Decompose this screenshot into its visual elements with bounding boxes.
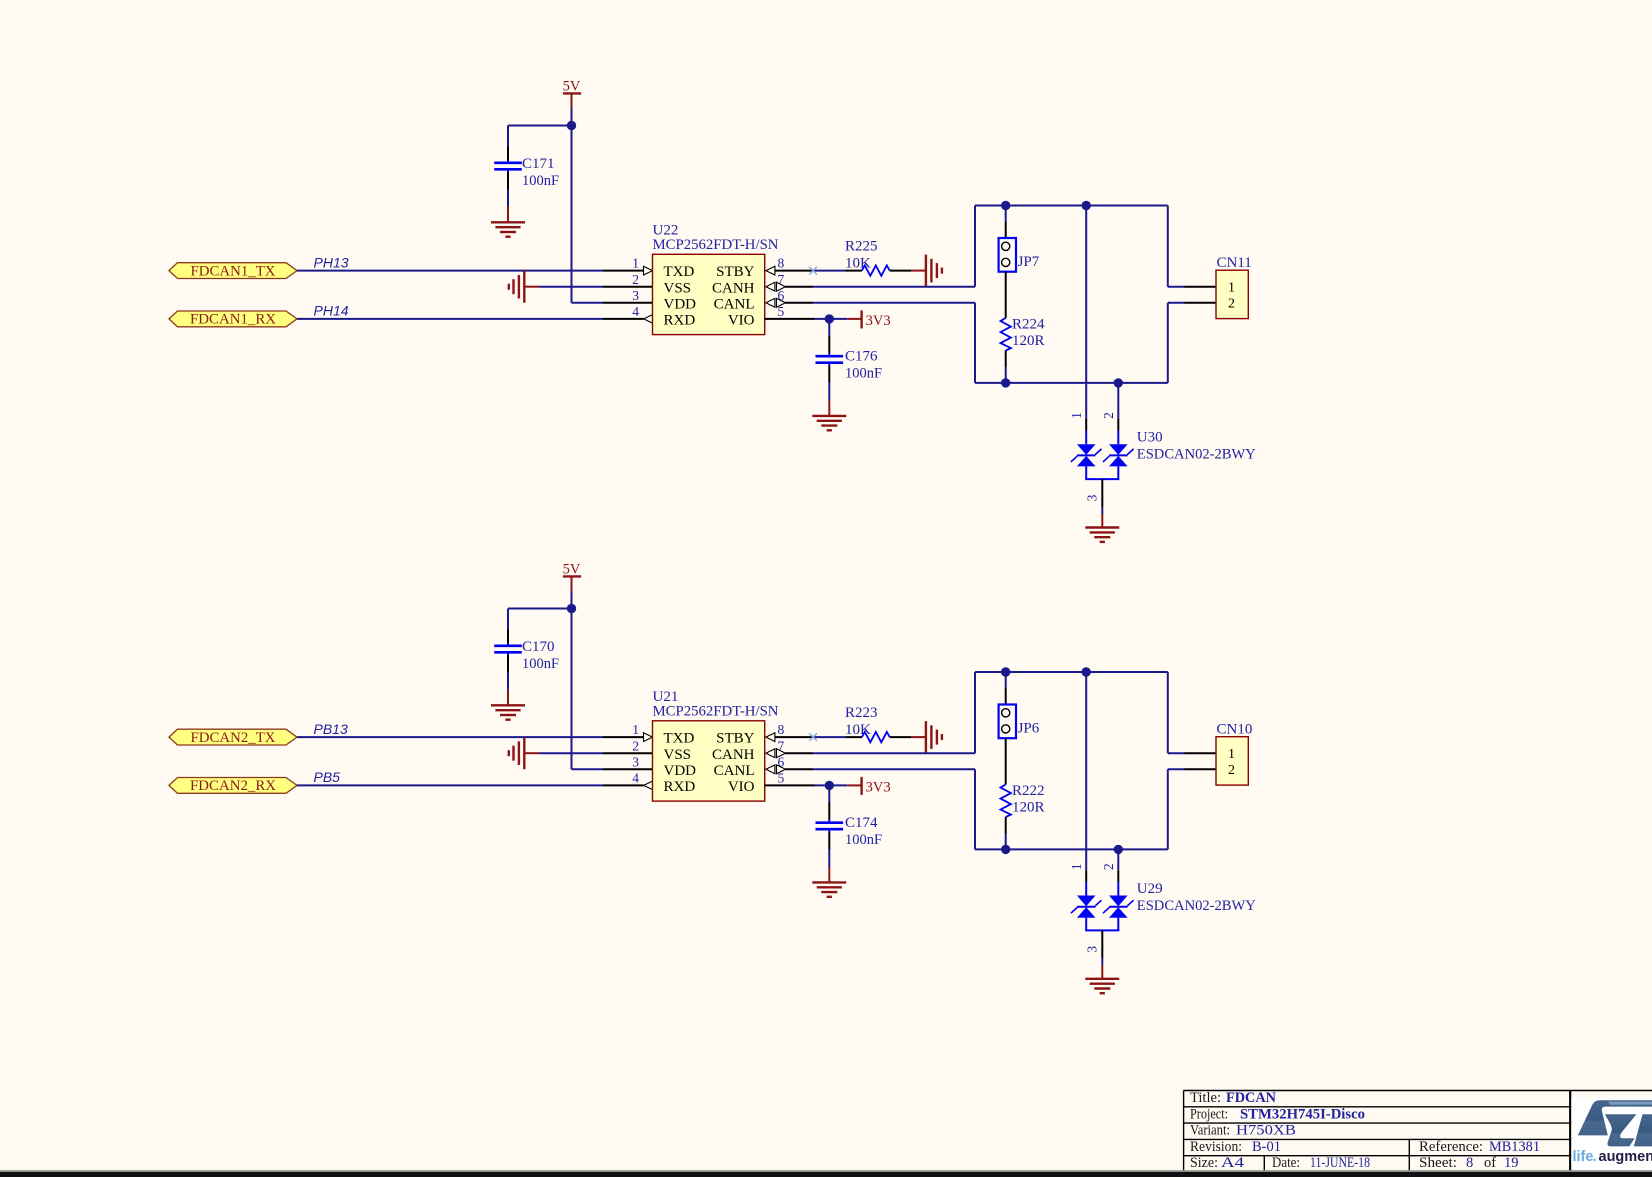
wire FDCAN1_TX to TXD pin 1 (circuit 1)	[297, 270, 644, 272]
wire CANH bus top rail (circuit 2)	[975, 672, 1168, 753]
junction 5V node (circuit 1)	[567, 121, 576, 130]
svg-text:C174: C174	[845, 815, 878, 831]
wire FDCAN2_TX to TXD pin 1 (circuit 2)	[297, 736, 644, 738]
wire bottom rail to CN11 pin 2 (circuit 1)	[1168, 303, 1216, 383]
junction top rail at JP7 (circuit 1)	[1001, 201, 1010, 210]
title block Date cell	[1272, 1155, 1370, 1171]
power symbol 3V3 bar (circuit 1)	[860, 310, 862, 328]
wire 5V rail down to VDD pin (circuit 1)	[572, 126, 604, 303]
title block table	[1184, 1091, 1652, 1172]
svg-text:4: 4	[632, 304, 639, 319]
port FDCAN1_RX	[169, 311, 297, 328]
svg-text:.: .	[1593, 1149, 1597, 1165]
svg-text:Variant:: Variant:	[1190, 1123, 1230, 1139]
svg-text:Size:: Size:	[1190, 1155, 1218, 1171]
wire R222 to bottom rail (circuit 2)	[1005, 817, 1007, 849]
svg-text:R223: R223	[845, 705, 878, 721]
wire top rail to U29 pin 1 (circuit 2)	[1085, 672, 1087, 896]
junction 5V node (circuit 2)	[567, 604, 576, 613]
svg-text:B-01: B-01	[1252, 1139, 1281, 1155]
port FDCAN2_TX	[169, 729, 297, 746]
svg-text:C176: C176	[845, 349, 878, 365]
resistor R222 120R	[1001, 784, 1011, 817]
wire C174 bottom lead (circuit 2)	[828, 829, 830, 882]
svg-text:5V: 5V	[563, 562, 581, 578]
capacitor C176	[816, 356, 844, 363]
svg-text:100nF: 100nF	[522, 656, 559, 672]
port FDCAN2_RX	[169, 778, 297, 795]
power symbol 3V3 bar (circuit 2)	[860, 777, 862, 795]
wire C174 top lead (circuit 2)	[828, 785, 830, 822]
svg-text:Sheet:: Sheet:	[1419, 1155, 1457, 1171]
wire VSS pin 2 (circuit 2)	[524, 752, 652, 754]
wire C170 bottom lead (circuit 2)	[507, 652, 509, 705]
transceiver U21 MCP2562FDT-H/SN	[653, 721, 765, 801]
wire 5V to C170 (circuit 2)	[508, 608, 572, 610]
svg-text:1: 1	[1069, 863, 1084, 870]
svg-text:CN11: CN11	[1217, 255, 1252, 271]
svg-text:R224: R224	[1012, 317, 1045, 333]
svg-text:CN10: CN10	[1217, 721, 1253, 737]
svg-text:3: 3	[1085, 494, 1100, 501]
jumper JP6	[999, 705, 1016, 739]
svg-text:3: 3	[632, 288, 639, 303]
svg-text:ESDCAN02-2BWY: ESDCAN02-2BWY	[1137, 447, 1256, 463]
power symbol 5V bar (circuit 2)	[563, 576, 581, 591]
svg-text:of: of	[1484, 1155, 1496, 1171]
port FDCAN1_TX	[169, 263, 297, 280]
svg-text:1: 1	[632, 256, 639, 271]
svg-text:R222: R222	[1012, 783, 1045, 799]
svg-text:CANH: CANH	[712, 747, 755, 763]
ground at U29 pin 3	[1085, 979, 1119, 993]
svg-text:U30: U30	[1137, 430, 1163, 446]
title block Title row	[1190, 1090, 1277, 1106]
svg-text:life: life	[1573, 1149, 1594, 1165]
svg-text:FDCAN2_TX: FDCAN2_TX	[191, 730, 276, 746]
svg-text:CANL: CANL	[714, 296, 755, 312]
svg-text:Reference:: Reference:	[1419, 1139, 1483, 1155]
svg-text:1: 1	[1228, 281, 1235, 296]
svg-text:TXD: TXD	[664, 264, 695, 280]
pin 6 CANL arrows (circuit 2)	[766, 765, 786, 774]
junction bottom rail at R222 (circuit 2)	[1001, 845, 1010, 854]
resistor R224 120R	[1001, 318, 1011, 351]
svg-text:CANH: CANH	[712, 280, 755, 296]
svg-text:VIO: VIO	[728, 313, 755, 329]
TVS diode B of U30	[1103, 444, 1134, 466]
wire top rail to U30 pin 1 (circuit 1)	[1085, 206, 1087, 445]
ground at VSS (circuit 2)	[509, 737, 525, 769]
svg-text:RXD: RXD	[664, 779, 696, 795]
wire 5V vertical to junction (circuit 2)	[571, 592, 573, 609]
wire VDD pin 3 black segment (circuit 2)	[603, 768, 653, 770]
resistor R223 10K	[862, 732, 890, 742]
svg-text:2: 2	[632, 738, 639, 753]
pin 4 output arrow (circuit 1)	[644, 315, 653, 324]
svg-text:3: 3	[632, 754, 639, 769]
svg-text:C171: C171	[522, 156, 555, 172]
wire FDCAN1_RX to RXD pin 4 (circuit 1)	[297, 318, 644, 320]
jumper JP7	[999, 238, 1016, 272]
wire C171 bottom lead (circuit 1)	[507, 169, 509, 222]
wire CANL (circuit 2)	[786, 768, 976, 770]
wire VDD pin 3 black segment (circuit 1)	[603, 302, 653, 304]
wire top rail to CN11 pin 1 (circuit 1)	[1168, 206, 1216, 287]
svg-text:100nF: 100nF	[522, 173, 559, 189]
wire U30 common cathode to pin 3 (circuit 1)	[1085, 466, 1119, 527]
svg-text:5V: 5V	[563, 79, 581, 95]
svg-text:FDCAN2_RX: FDCAN2_RX	[190, 778, 276, 794]
wire CANH (circuit 2)	[786, 752, 976, 754]
svg-text:VSS: VSS	[664, 280, 692, 296]
ground below C174	[812, 882, 846, 896]
junction bottom rail at U30 pin 2 (circuit 1)	[1114, 378, 1123, 387]
svg-text:1: 1	[1069, 412, 1084, 419]
wire C170 top lead (circuit 2)	[507, 609, 509, 646]
wire bottom rail to U30 pin 2 (circuit 1)	[1117, 383, 1119, 444]
pin 1 input arrow (circuit 1)	[644, 266, 653, 275]
svg-text:C170: C170	[522, 639, 555, 655]
svg-text:2: 2	[1228, 763, 1235, 778]
title block Revision cell	[1190, 1139, 1281, 1155]
svg-text:3V3: 3V3	[866, 780, 891, 796]
svg-text:STBY: STBY	[716, 731, 755, 747]
pin 6 CANL arrows (circuit 1)	[766, 298, 786, 307]
no-ERC cross on STBY net (circuit 2)	[809, 733, 817, 741]
svg-text:FDCAN1_TX: FDCAN1_TX	[191, 263, 276, 279]
title block Variant row	[1190, 1123, 1296, 1139]
svg-text:PB13: PB13	[314, 721, 348, 737]
transceiver U22 MCP2562FDT-H/SN	[653, 254, 765, 334]
title block Size cell	[1190, 1155, 1245, 1171]
junction VIO node (circuit 1)	[825, 314, 834, 323]
svg-text:1: 1	[632, 722, 639, 737]
wire STBY to R225 (circuit 1)	[775, 270, 862, 272]
svg-text:8: 8	[778, 256, 785, 271]
svg-text:H750XB: H750XB	[1236, 1123, 1296, 1139]
wire U29 common cathode to pin 3 (circuit 2)	[1085, 918, 1119, 979]
title block Sheet cell	[1419, 1155, 1519, 1171]
svg-text:8: 8	[1466, 1155, 1473, 1171]
svg-text:2: 2	[1101, 863, 1116, 870]
ST logo pebble	[1578, 1100, 1652, 1146]
ground below C170	[491, 705, 525, 719]
svg-text:JP6: JP6	[1018, 721, 1040, 737]
svg-text:PH14: PH14	[314, 303, 349, 319]
wire CANL bus to bottom rail (circuit 2)	[975, 769, 1168, 849]
svg-text:A4: A4	[1221, 1155, 1245, 1171]
svg-text:ESDCAN02-2BWY: ESDCAN02-2BWY	[1137, 898, 1256, 914]
svg-text:CANL: CANL	[714, 763, 755, 779]
junction top rail at JP6 (circuit 2)	[1001, 667, 1010, 676]
svg-text:Project:: Project:	[1190, 1106, 1228, 1122]
wire bottom rail to U29 pin 2 (circuit 2)	[1117, 849, 1119, 895]
svg-text:JP7: JP7	[1018, 254, 1040, 270]
svg-text:120R: 120R	[1012, 800, 1045, 816]
svg-text:MCP2562FDT-H/SN: MCP2562FDT-H/SN	[653, 703, 779, 719]
ST logo life.augmented text	[1573, 1149, 1652, 1165]
wire R225 to ground (circuit 1)	[890, 270, 926, 272]
pin 8 STBY arrow (circuit 2)	[766, 733, 775, 742]
wire CANH bus top rail (circuit 1)	[975, 206, 1168, 287]
bottom window taskbar band	[0, 1170, 1652, 1177]
capacitor C174	[816, 823, 844, 830]
svg-text:MB1381: MB1381	[1489, 1139, 1540, 1155]
svg-text:augmented: augmented	[1599, 1149, 1652, 1165]
svg-text:Revision:: Revision:	[1190, 1139, 1242, 1155]
svg-text:PB5: PB5	[314, 769, 341, 785]
svg-text:Date:: Date:	[1272, 1155, 1300, 1171]
svg-text:U29: U29	[1137, 881, 1163, 897]
svg-text:FDCAN: FDCAN	[1226, 1090, 1277, 1106]
TVS diode B of U29	[1103, 896, 1134, 918]
pin numbers 8-5 of U21	[778, 722, 785, 785]
wire top rail to JP7 (circuit 1)	[1005, 206, 1007, 239]
connector CN10	[1216, 737, 1248, 785]
ground at U30 pin 3	[1085, 528, 1119, 542]
svg-text:8: 8	[778, 722, 785, 737]
connector CN11	[1216, 270, 1248, 318]
ST logo cell background	[1571, 1098, 1652, 1170]
wire bottom rail to CN10 pin 2 (circuit 2)	[1168, 769, 1216, 849]
ground below C176	[812, 416, 846, 430]
wire CANL (circuit 1)	[786, 302, 976, 304]
junction top rail at U30 pin 1 (circuit 1)	[1082, 201, 1091, 210]
svg-text:VDD: VDD	[664, 763, 697, 779]
capacitor C171	[494, 163, 522, 170]
wire 5V to C171 (circuit 1)	[508, 125, 572, 127]
wire R223 to ground (circuit 2)	[890, 736, 926, 738]
svg-text:3: 3	[1085, 946, 1100, 953]
svg-text:2: 2	[1101, 412, 1116, 419]
wire 5V vertical to junction (circuit 1)	[571, 109, 573, 126]
svg-text:STBY: STBY	[716, 264, 755, 280]
svg-text:VDD: VDD	[664, 296, 697, 312]
svg-text:2: 2	[632, 272, 639, 287]
svg-text:1: 1	[1228, 747, 1235, 762]
pin 8 STBY arrow (circuit 1)	[766, 266, 775, 275]
svg-text:R225: R225	[845, 239, 878, 255]
svg-text:19: 19	[1504, 1155, 1519, 1171]
svg-text:MCP2562FDT-H/SN: MCP2562FDT-H/SN	[653, 237, 779, 253]
no-ERC cross on STBY net (circuit 1)	[809, 267, 817, 275]
svg-text:4: 4	[632, 771, 639, 786]
pin numbers 1-4 of U21	[632, 722, 639, 785]
ground below C171	[491, 222, 525, 236]
pin 7 CANH arrows (circuit 2)	[766, 749, 786, 758]
svg-text:100nF: 100nF	[845, 832, 882, 848]
wire C176 bottom lead (circuit 1)	[828, 363, 830, 416]
wire C176 top lead (circuit 1)	[828, 319, 830, 356]
pin 7 CANH arrows (circuit 1)	[766, 282, 786, 291]
junction VIO node (circuit 2)	[825, 781, 834, 790]
pin numbers 8-5 of U22	[778, 256, 785, 319]
svg-text:3V3: 3V3	[866, 313, 891, 329]
pin 1 input arrow (circuit 2)	[644, 733, 653, 742]
resistor R225 10K	[862, 265, 890, 275]
wire VIO pin 5 (circuit 1)	[765, 318, 861, 320]
svg-text:11-JUNE-18: 11-JUNE-18	[1310, 1155, 1370, 1171]
wire VSS pin 2 (circuit 1)	[524, 286, 652, 288]
wire CANL bus to bottom rail (circuit 1)	[975, 303, 1168, 383]
pin numbers 1-4 of U22	[632, 256, 639, 319]
wire JP7 to R224 (circuit 1)	[1005, 272, 1007, 318]
wire FDCAN2_RX to RXD pin 4 (circuit 2)	[297, 784, 644, 786]
ground at VSS (circuit 1)	[509, 271, 525, 303]
svg-text:2: 2	[1228, 297, 1235, 312]
wire 5V rail down to VDD pin (circuit 2)	[572, 609, 604, 770]
wire C171 top lead (circuit 1)	[507, 126, 509, 163]
wire R224 to bottom rail (circuit 1)	[1005, 351, 1007, 383]
pin 4 output arrow (circuit 2)	[644, 781, 653, 790]
junction top rail at U29 pin 1 (circuit 2)	[1082, 667, 1091, 676]
svg-text:120R: 120R	[1012, 333, 1045, 349]
ground after R225 (circuit 1)	[926, 255, 942, 287]
wire JP6 to R222 (circuit 2)	[1005, 738, 1007, 784]
capacitor C170	[494, 646, 522, 653]
junction bottom rail at U29 pin 2 (circuit 2)	[1114, 845, 1123, 854]
svg-text:Title:: Title:	[1190, 1090, 1221, 1106]
svg-text:STM32H745I-Disco: STM32H745I-Disco	[1240, 1106, 1365, 1122]
wire top rail to JP6 (circuit 2)	[1005, 672, 1007, 705]
wire CANH (circuit 1)	[786, 286, 976, 288]
wire VIO pin 5 (circuit 2)	[765, 784, 861, 786]
svg-text:RXD: RXD	[664, 313, 696, 329]
svg-text:PH13: PH13	[314, 254, 349, 270]
TVS diode A of U30	[1071, 444, 1102, 466]
svg-text:TXD: TXD	[664, 731, 695, 747]
wire top rail to CN10 pin 1 (circuit 2)	[1168, 672, 1216, 753]
junction bottom rail at R224 (circuit 1)	[1001, 378, 1010, 387]
title block Reference cell	[1419, 1139, 1540, 1155]
TVS diode A of U29	[1071, 896, 1102, 918]
power symbol 5V bar (circuit 1)	[563, 93, 581, 108]
svg-text:VSS: VSS	[664, 747, 692, 763]
svg-text:100nF: 100nF	[845, 366, 882, 382]
wire STBY to R223 (circuit 2)	[775, 736, 862, 738]
title block Project row	[1190, 1106, 1365, 1122]
svg-text:FDCAN1_RX: FDCAN1_RX	[190, 312, 276, 328]
svg-text:VIO: VIO	[728, 779, 755, 795]
ground after R223 (circuit 2)	[926, 721, 942, 753]
